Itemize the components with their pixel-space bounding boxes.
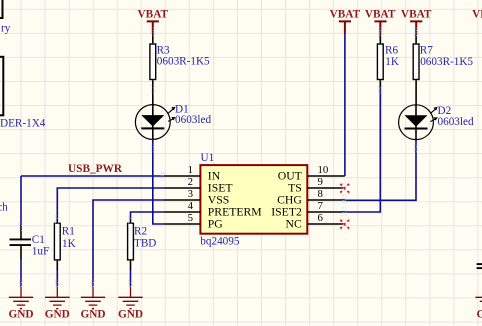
svg-text:6: 6 <box>318 212 324 224</box>
power port VBAT (column 2) <box>330 9 361 34</box>
resistor R2 <box>128 219 157 270</box>
resistor R3 <box>150 34 210 105</box>
svg-text:0603led: 0603led <box>175 114 211 126</box>
wire R1 to GND <box>56 270 58 286</box>
U1 pin 8 (CHG) <box>277 188 345 207</box>
svg-text:R1: R1 <box>62 226 75 238</box>
U1 pin 2 (ISET) <box>163 176 232 195</box>
svg-text:GND: GND <box>476 309 482 321</box>
connector HEADER-1X4 (partial, cut at left edge) <box>0 57 46 130</box>
resistor R6 <box>377 34 399 88</box>
ground symbol GND 3 <box>80 286 105 321</box>
svg-text:VBAT: VBAT <box>401 9 432 21</box>
svg-text:ch: ch <box>0 201 8 213</box>
svg-text:DER-1X4: DER-1X4 <box>0 117 46 129</box>
svg-text:1: 1 <box>188 164 193 176</box>
wire USB_PWR down to C1 <box>20 176 22 225</box>
svg-text:R6: R6 <box>385 44 398 56</box>
ground symbol GND 2 <box>45 286 70 321</box>
svg-text:9: 9 <box>318 176 323 188</box>
svg-text:0603R-1K5: 0603R-1K5 <box>420 56 473 68</box>
power port VBAT (column 4) <box>401 9 432 34</box>
svg-text:USB_PWR: USB_PWR <box>68 163 123 175</box>
power port VBAT (column 1) <box>138 9 169 34</box>
svg-text:VBAT: VBAT <box>330 9 361 21</box>
svg-text:10: 10 <box>318 164 329 176</box>
svg-text:GND: GND <box>80 309 105 321</box>
wire pin 4 (PRETERM) to R2 <box>131 212 164 219</box>
IC U1 bq24095 body <box>200 152 307 248</box>
svg-text:GND: GND <box>118 309 143 321</box>
svg-text:R2: R2 <box>134 226 147 238</box>
wire VBAT column 2 down to pin 10 (OUT) <box>344 34 346 177</box>
svg-text:bq24095: bq24095 <box>200 236 240 248</box>
U1 pin 9 (TS) <box>288 176 343 195</box>
wire USB_PWR to pin 1 (IN) <box>21 175 163 177</box>
no-ERC marker on pin 9 <box>340 184 349 193</box>
wire C1 to GND <box>20 260 22 285</box>
U1 pin 3 (VSS) <box>163 188 229 207</box>
svg-text:3: 3 <box>188 188 193 200</box>
U1 pin 5 (PG) <box>163 212 223 231</box>
svg-text:R3: R3 <box>157 44 170 56</box>
ground symbol GND 5 (partial, cut at right edge) <box>475 297 482 320</box>
capacitor (partial, cut at right edge) <box>477 264 482 268</box>
junction markers (compile indicators) <box>19 28 417 286</box>
wire D1 cathode down to pin 5 (PG) <box>153 139 164 224</box>
capacitor C1 <box>10 225 50 260</box>
no-ERC marker on pin 6 <box>340 220 349 229</box>
svg-text:C1: C1 <box>32 234 45 246</box>
wire D2 cathode down to pin 8 (CHG) <box>345 140 416 201</box>
wire R6 down to pin 7 (ISET2) <box>345 88 380 212</box>
ground symbol GND 1 <box>8 286 33 321</box>
svg-text:1K: 1K <box>62 238 76 250</box>
svg-text:1uF: 1uF <box>32 246 49 258</box>
wire R2 to GND <box>130 270 132 286</box>
svg-text:5: 5 <box>188 212 193 224</box>
ground symbol GND 4 <box>118 286 143 321</box>
wire pin 3 (VSS) to GND <box>93 200 163 286</box>
svg-text:U1: U1 <box>201 152 215 164</box>
svg-text:NC: NC <box>286 217 302 230</box>
svg-text:8: 8 <box>318 188 323 200</box>
svg-text:ry: ry <box>1 23 11 35</box>
svg-text:0603led: 0603led <box>438 116 474 128</box>
svg-text:VBAT: VBAT <box>138 9 169 21</box>
U1 pin 6 (NC) <box>286 212 344 231</box>
svg-text:1K: 1K <box>385 56 399 68</box>
svg-text:0603R-1K5: 0603R-1K5 <box>157 56 210 68</box>
LED D2 <box>399 105 474 140</box>
U1 pin 10 (OUT) <box>278 164 345 183</box>
svg-text:7: 7 <box>318 200 324 212</box>
svg-text:GND: GND <box>8 309 33 321</box>
LED D1 <box>135 104 211 140</box>
battery component (partial, cut at left edge) <box>0 0 11 35</box>
svg-text:PG: PG <box>208 217 224 230</box>
svg-text:2: 2 <box>188 176 193 188</box>
svg-text:GND: GND <box>45 309 70 321</box>
svg-text:VBAT: VBAT <box>365 9 396 21</box>
U1 pin 1 (IN) <box>163 164 220 183</box>
U1 pin 7 (ISET2) <box>271 200 345 219</box>
power port VBAT (column 5, partial at right edge) <box>472 9 482 34</box>
resistor R1 <box>54 219 75 270</box>
U1 pin 4 (PRETERM) <box>163 200 262 219</box>
svg-text:R7: R7 <box>420 44 433 56</box>
svg-text:4: 4 <box>188 200 194 212</box>
resistor R7 <box>413 34 473 105</box>
wire pin 2 (ISET) to R1 <box>57 188 163 219</box>
power port VBAT (column 3) <box>365 9 396 34</box>
svg-text:TBD: TBD <box>134 238 156 250</box>
svg-text:VBAT: VBAT <box>472 9 482 21</box>
